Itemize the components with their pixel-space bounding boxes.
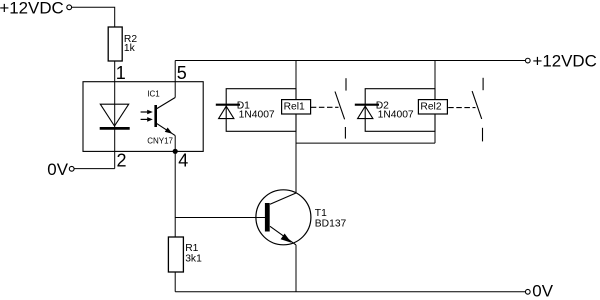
dashed link Rel2 coil to contact [448, 107, 475, 109]
relay Rel1 label box [282, 100, 311, 114]
svg-text:Rel2: Rel2 [420, 102, 441, 113]
svg-text:T1: T1 [315, 208, 327, 219]
svg-text:1N4007: 1N4007 [239, 110, 275, 121]
0V rail [175, 291, 525, 293]
wire pin 4 down to R1 [174, 136, 176, 237]
diode D1 [216, 105, 240, 119]
optocoupler IC1 package box [83, 82, 203, 152]
svg-text:1k: 1k [124, 43, 136, 54]
wire R1 bottom to 0V rail [174, 272, 176, 292]
LED of IC1 [100, 104, 130, 128]
terminal 0V right [525, 289, 530, 294]
svg-text:0V: 0V [532, 281, 553, 300]
resistor R2 [108, 27, 122, 61]
wire riser Rel2 [434, 61, 436, 144]
svg-text:1: 1 [116, 63, 126, 83]
light arrow lower [141, 117, 153, 122]
relay Rel2 label box [418, 100, 447, 114]
svg-text:+12VDC: +12VDC [0, 0, 64, 18]
transistor T1 [256, 190, 311, 245]
svg-text:0V: 0V [47, 160, 68, 179]
relay contact Rel1 [335, 78, 346, 138]
junction dot pin 4 [173, 149, 178, 154]
wire pin 2 to 0V terminal [74, 168, 115, 170]
wire R2 bottom to LED anode [114, 61, 116, 169]
svg-text:2: 2 [117, 150, 127, 170]
resistor R1 [168, 237, 183, 272]
relay Rel1 coil box [226, 89, 296, 132]
svg-text:IC1: IC1 [147, 90, 160, 99]
relay Rel2 coil box [365, 89, 435, 132]
svg-text:3k1: 3k1 [185, 254, 202, 265]
wire riser Rel1 / collector net [295, 61, 297, 194]
svg-text:Rel1: Rel1 [284, 102, 305, 113]
terminal 0V left [69, 166, 74, 171]
svg-text:5: 5 [177, 63, 187, 83]
svg-text:+12VDC: +12VDC [533, 51, 597, 70]
top bus +12VDC [175, 60, 525, 62]
svg-text:R1: R1 [185, 243, 198, 254]
svg-text:BD137: BD137 [315, 219, 347, 230]
wire pin 5 riser [174, 61, 176, 98]
svg-text:CNY17: CNY17 [147, 136, 173, 145]
terminal +12VDC top-left [67, 5, 72, 10]
terminal +12VDC top-right [525, 58, 530, 63]
wire relay bottoms to collector net [296, 142, 435, 144]
wire +12VDC terminal to R2 top [72, 7, 115, 27]
phototransistor collector [157, 98, 175, 109]
phototransistor emitter with arrow [157, 124, 175, 136]
relay contact Rel2 [472, 78, 483, 142]
light arrow upper [141, 110, 153, 115]
svg-text:4: 4 [178, 151, 188, 171]
wire emitter to 0V rail [295, 245, 297, 292]
wire base of T1 [175, 217, 265, 219]
phototransistor base bar [154, 105, 157, 127]
svg-text:1N4007: 1N4007 [378, 110, 414, 121]
dashed link Rel1 coil to contact [311, 106, 339, 108]
diode D2 [355, 105, 379, 119]
